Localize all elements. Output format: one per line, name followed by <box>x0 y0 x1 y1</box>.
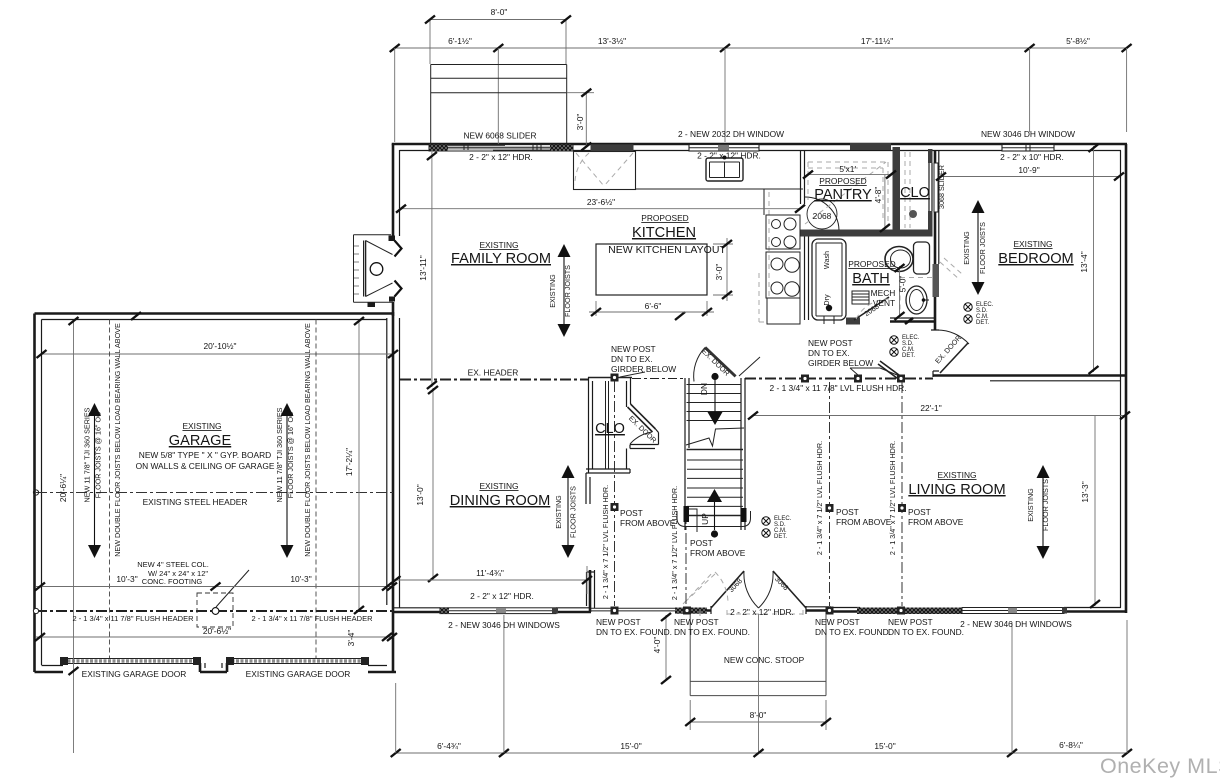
entry double doors 3068 <box>711 571 806 608</box>
upper flight treads <box>687 385 742 421</box>
svg-text:EXISTING: EXISTING <box>479 481 518 491</box>
CLO shelves dashed <box>905 152 910 228</box>
svg-text:Dry: Dry <box>822 294 831 306</box>
svg-text:4'-0": 4'-0" <box>652 637 662 654</box>
svg-text:2 - 1 3/4" x 7 1/2" LVL FLUSH: 2 - 1 3/4" x 7 1/2" LVL FLUSH HDR. <box>815 441 824 555</box>
kitchen island dims <box>589 301 714 316</box>
lower flight treads <box>687 460 743 506</box>
svg-text:DET.: DET. <box>902 353 915 359</box>
svg-text:MECH: MECH <box>871 288 896 298</box>
svg-text:13'-3": 13'-3" <box>1080 481 1090 502</box>
svg-text:8'-0": 8'-0" <box>491 7 508 17</box>
bedroom door jamb stub <box>931 330 939 377</box>
svg-text:NEW 3046 DH WINDOW: NEW 3046 DH WINDOW <box>981 129 1075 139</box>
bottom dim line <box>396 752 1127 754</box>
svg-text:6'-1½": 6'-1½" <box>448 36 472 46</box>
bath bottom hatched block <box>846 318 860 325</box>
svg-text:13'-11": 13'-11" <box>418 255 428 280</box>
right counter with range <box>763 189 765 215</box>
svg-text:20'-6¼": 20'-6¼" <box>58 474 68 502</box>
svg-text:DN TO EX.: DN TO EX. <box>611 354 653 364</box>
house right wall <box>1125 144 1128 613</box>
living room flush hdr verticals <box>830 382 903 606</box>
EX HEADER line <box>400 379 588 381</box>
svg-text:13'-0": 13'-0" <box>415 484 425 505</box>
stoop <box>690 614 826 696</box>
svg-text:NEW CONC. STOOP: NEW CONC. STOOP <box>724 655 805 665</box>
kitchen top counter edge <box>636 188 803 190</box>
ELEC symbols stairs <box>762 517 770 537</box>
living windows <box>962 608 1064 614</box>
fireplace firebox <box>365 241 367 297</box>
kitchen window <box>689 145 759 152</box>
svg-text:2 - NEW 3046 DH WINDOWS: 2 - NEW 3046 DH WINDOWS <box>960 619 1072 629</box>
svg-text:DN TO EX.: DN TO EX. <box>808 348 850 358</box>
svg-text:2 - 1 3/4" x 7 1/2" LVL FLUSH: 2 - 1 3/4" x 7 1/2" LVL FLUSH HDR. <box>888 441 897 555</box>
svg-text:FLOOR JOISTS: FLOOR JOISTS <box>563 265 572 317</box>
extension lines <box>395 48 1127 146</box>
svg-text:LIVING ROOM: LIVING ROOM <box>908 482 1005 498</box>
svg-text:UP: UP <box>700 513 710 525</box>
svg-text:FLOOR JOISTS: FLOOR JOISTS <box>1041 479 1050 531</box>
closet angled door wall <box>628 404 656 432</box>
pantry dims 5'-1 / 4'-8 <box>807 174 893 176</box>
pantry door arc 2068 <box>805 197 839 230</box>
toilet <box>914 242 930 274</box>
svg-text:2 - 1 3/4" x 7 1/2" LVL FLUSH: 2 - 1 3/4" x 7 1/2" LVL FLUSH HDR. <box>601 485 610 599</box>
existing steel header line <box>36 492 396 494</box>
pantry/CLO top hatched wall segment <box>850 143 891 150</box>
svg-text:NEW 11 7/8" TJI 360 SERIES: NEW 11 7/8" TJI 360 SERIES <box>275 407 284 502</box>
svg-text:20'-6½": 20'-6½" <box>203 626 231 636</box>
svg-text:NEW DOUBLE FLOOR JOISTS BELOW: NEW DOUBLE FLOOR JOISTS BELOW LOAD BEARI… <box>303 323 312 557</box>
pantry east hatched wall <box>893 147 901 231</box>
svg-text:11'-4¾": 11'-4¾" <box>476 568 504 578</box>
fireplace box <box>354 235 394 303</box>
dining windows <box>440 608 556 614</box>
svg-text:20'-10½": 20'-10½" <box>204 341 237 351</box>
svg-text:10'-9": 10'-9" <box>1018 165 1039 175</box>
island <box>596 244 707 295</box>
svg-text:2 - 1 3/4" x 11 7/8" FLUSH HEA: 2 - 1 3/4" x 11 7/8" FLUSH HEADER <box>72 614 194 623</box>
svg-text:6'-4¾": 6'-4¾" <box>437 741 461 751</box>
svg-text:CLO: CLO <box>900 185 930 201</box>
svg-text:EXISTING: EXISTING <box>1013 239 1052 249</box>
svg-text:DN TO EX. FOUND.: DN TO EX. FOUND. <box>596 627 672 637</box>
4'-0 entry dim <box>665 615 667 681</box>
flush header center line <box>36 610 394 612</box>
svg-text:2 - NEW 3046 DH WINDOWS: 2 - NEW 3046 DH WINDOWS <box>448 620 560 630</box>
living bottom new hatched wall <box>857 608 962 615</box>
svg-text:5'-8½": 5'-8½" <box>1066 36 1090 46</box>
svg-text:CONC. FOOTING: CONC. FOOTING <box>142 577 203 586</box>
svg-text:PROPOSED: PROPOSED <box>848 259 895 269</box>
bedroom window <box>1002 145 1054 152</box>
UP arrow <box>711 530 718 537</box>
bath 5'-0 dim <box>899 266 901 318</box>
fireplace black blocks <box>389 236 396 242</box>
break line <box>686 428 744 446</box>
svg-text:2 - 2" x 12" HDR.: 2 - 2" x 12" HDR. <box>697 151 761 161</box>
svg-text:PROPOSED: PROPOSED <box>819 176 866 186</box>
svg-text:NEW POST: NEW POST <box>596 617 641 627</box>
svg-text:NEW DOUBLE FLOOR JOISTS BELOW: NEW DOUBLE FLOOR JOISTS BELOW LOAD BEARI… <box>113 323 122 557</box>
garage door jamb blocks <box>60 657 68 665</box>
svg-text:EXISTING: EXISTING <box>548 274 557 308</box>
living room bottom wall <box>831 610 1126 613</box>
svg-text:EXISTING: EXISTING <box>937 470 976 480</box>
fireplace opening chevrons <box>395 241 402 297</box>
svg-text:BATH: BATH <box>852 271 890 287</box>
CLO east wall with slider opening <box>928 149 933 163</box>
svg-text:EXISTING: EXISTING <box>1026 488 1035 522</box>
garage vertical dim left <box>73 320 75 754</box>
newel black blocks <box>684 506 690 522</box>
dining east wall stub <box>589 570 592 612</box>
svg-text:5'x1': 5'x1' <box>839 164 856 174</box>
svg-text:PANTRY: PANTRY <box>814 187 872 203</box>
svg-text:13'-4": 13'-4" <box>1079 251 1089 272</box>
svg-text:2 - 1 3/4" x 11 7/8" LVL FLUSH: 2 - 1 3/4" x 11 7/8" LVL FLUSH HDR. <box>769 383 906 393</box>
svg-text:FROM ABOVE: FROM ABOVE <box>836 517 892 527</box>
svg-text:23'-6½": 23'-6½" <box>587 197 615 207</box>
family/dining joist arrow <box>563 257 565 324</box>
svg-text:DET.: DET. <box>976 320 989 326</box>
bedroom west wall <box>934 150 937 264</box>
stairs top EX DOOR <box>705 348 736 377</box>
svg-text:EXISTING: EXISTING <box>182 421 221 431</box>
3'-0 vert dim at deck <box>567 93 594 147</box>
svg-text:POST: POST <box>908 507 931 517</box>
svg-text:KITCHEN: KITCHEN <box>632 225 696 241</box>
svg-text:2 - 1 3/4" x 11 7/8" FLUSH HEA: 2 - 1 3/4" x 11 7/8" FLUSH HEADER <box>251 614 373 623</box>
svg-text:EX. HEADER: EX. HEADER <box>468 368 519 378</box>
girder leader trapezoid <box>850 368 897 375</box>
svg-text:3'-4": 3'-4" <box>346 630 356 647</box>
steel column dashed box <box>197 593 233 627</box>
svg-text:3068 SLIDER: 3068 SLIDER <box>937 165 946 209</box>
washer dryer unit <box>812 239 846 320</box>
svg-text:EXISTING: EXISTING <box>479 240 518 250</box>
garage dim line 10'-3 row <box>36 586 394 588</box>
svg-text:2 - NEW 2032 DH WINDOW: 2 - NEW 2032 DH WINDOW <box>678 129 784 139</box>
flush header line stairs to bedroom <box>745 378 933 380</box>
closet top wall <box>588 377 632 379</box>
svg-text:3'-0": 3'-0" <box>575 114 585 131</box>
house top wall outer <box>392 143 1127 146</box>
svg-text:EXISTING: EXISTING <box>554 495 563 529</box>
svg-text:POST: POST <box>620 508 643 518</box>
svg-text:FROM ABOVE: FROM ABOVE <box>620 518 676 528</box>
svg-text:4'-8": 4'-8" <box>873 187 883 204</box>
svg-text:17'-11½": 17'-11½" <box>861 36 893 46</box>
bath door leaf <box>854 297 889 320</box>
living joist arrow <box>1042 478 1044 546</box>
DN arrow <box>711 373 718 380</box>
house top wall inner segments <box>400 150 1122 152</box>
svg-text:15'-0": 15'-0" <box>620 741 641 751</box>
posts on girder <box>611 374 619 382</box>
svg-text:6'-8¼": 6'-8¼" <box>1059 740 1083 750</box>
8'-0 stoop dim <box>690 700 826 730</box>
garage top interior dim 20'-10.5 <box>41 353 394 355</box>
fireplace masonry ticks <box>354 246 359 294</box>
svg-text:ON WALLS & CEILING OF GARAGE: ON WALLS & CEILING OF GARAGE <box>136 461 275 471</box>
svg-text:NEW POST: NEW POST <box>611 344 656 354</box>
svg-text:FROM ABOVE: FROM ABOVE <box>690 548 746 558</box>
lower cabinet right <box>767 298 800 324</box>
slider window <box>429 145 573 152</box>
garage dim line 20'-6.5 row <box>36 636 394 638</box>
svg-text:Wash: Wash <box>822 251 831 269</box>
joist arrows garage <box>94 416 96 545</box>
22'-1 dim <box>752 415 1127 417</box>
bedroom west wall hatched new portion <box>933 264 940 297</box>
svg-text:EXISTING STEEL HEADER: EXISTING STEEL HEADER <box>143 497 248 507</box>
svg-text:2068: 2068 <box>813 211 832 221</box>
svg-text:NEW 4" STEEL COL.: NEW 4" STEEL COL. <box>137 560 209 569</box>
range boxes <box>766 215 800 249</box>
bedroom dims 10'-9 / 13'-4 <box>939 176 1121 178</box>
entry jambs and wall to stoop right <box>591 608 675 611</box>
13'-11 family dim <box>431 152 433 387</box>
bottom rounded rail <box>677 511 751 527</box>
svg-text:GARAGE: GARAGE <box>169 433 232 449</box>
svg-text:13'-3½": 13'-3½" <box>598 36 626 46</box>
bedroom door <box>940 343 968 373</box>
svg-text:EXISTING: EXISTING <box>962 231 971 265</box>
mech vent box <box>852 291 869 304</box>
entry bottom hatched wall <box>675 608 707 614</box>
svg-text:10'-3": 10'-3" <box>290 574 311 584</box>
landing line <box>687 449 744 451</box>
svg-text:EXISTING GARAGE DOOR: EXISTING GARAGE DOOR <box>82 669 187 679</box>
svg-text:DN TO EX. FOUND.: DN TO EX. FOUND. <box>888 627 964 637</box>
bedroom west wall lower <box>934 297 937 330</box>
top dim 8'-0 <box>430 20 566 65</box>
pantry west wall <box>801 150 805 204</box>
garage door band <box>63 659 368 664</box>
posts on bottom wall <box>611 607 619 615</box>
svg-text:NEW 5/8" TYPE " X " GYP. BOARD: NEW 5/8" TYPE " X " GYP. BOARD <box>139 450 271 460</box>
svg-text:NEW POST: NEW POST <box>888 617 933 627</box>
svg-text:DINING ROOM: DINING ROOM <box>450 493 551 509</box>
svg-text:15'-0": 15'-0" <box>874 741 895 751</box>
svg-text:6'-6": 6'-6" <box>645 301 662 311</box>
lav sink <box>906 286 927 314</box>
svg-text:DN TO EX. FOUND.: DN TO EX. FOUND. <box>815 627 891 637</box>
13'-3 living dim <box>1094 416 1096 607</box>
garage outer walls <box>35 314 397 673</box>
svg-text:2 - 2" x 12" HDR.: 2 - 2" x 12" HDR. <box>470 591 534 601</box>
svg-text:FLOOR JOISTS: FLOOR JOISTS <box>569 486 578 538</box>
svg-text:22'-1": 22'-1" <box>920 403 941 413</box>
fridge box with swing <box>574 152 636 190</box>
svg-text:EXISTING GARAGE DOOR: EXISTING GARAGE DOOR <box>246 669 351 679</box>
pantry shelves dashed <box>808 162 888 226</box>
11'-4.75 dim <box>394 566 587 594</box>
west wall family room <box>392 144 395 236</box>
svg-text:GIRDER BELOW: GIRDER BELOW <box>808 358 873 368</box>
svg-text:DN: DN <box>699 383 709 395</box>
svg-text:FAMILY ROOM: FAMILY ROOM <box>451 251 551 267</box>
hall angled wall to post <box>878 361 901 380</box>
hall closet <box>586 377 631 473</box>
13'-0 dining dim <box>432 388 434 580</box>
svg-text:NEW KITCHEN LAYOUT: NEW KITCHEN LAYOUT <box>608 244 726 256</box>
svg-text:DN TO EX. FOUND.: DN TO EX. FOUND. <box>674 627 750 637</box>
svg-text:8'-0": 8'-0" <box>750 710 767 720</box>
svg-text:17'-2¼": 17'-2¼" <box>344 448 354 476</box>
svg-text:BEDROOM: BEDROOM <box>998 251 1073 267</box>
stoop center line <box>758 614 760 753</box>
bedroom/living divider wall <box>933 374 1126 377</box>
svg-text:NEW POST: NEW POST <box>808 338 853 348</box>
garage vertical dim right <box>358 320 360 612</box>
dining side flush hdr verticals <box>615 381 687 606</box>
west wall below fireplace to garage top <box>392 302 395 316</box>
svg-text:FLOOR JOISTS: FLOOR JOISTS <box>978 222 987 274</box>
svg-text:2 - 2" x 12" HDR.: 2 - 2" x 12" HDR. <box>469 152 533 162</box>
elec labels <box>774 302 994 540</box>
dining bottom wall <box>392 611 591 614</box>
svg-text:GIRDER BELOW: GIRDER BELOW <box>611 364 676 374</box>
svg-text:POST: POST <box>836 507 859 517</box>
ticks on garage top wall <box>131 312 141 320</box>
svg-text:FLOOR JOISTS @ 16" OC: FLOOR JOISTS @ 16" OC <box>94 412 103 499</box>
dining west wall / garage east wall <box>392 312 395 672</box>
stair side walls <box>685 378 745 530</box>
leader to steel col <box>216 570 249 607</box>
bedroom joist arrow <box>977 213 979 282</box>
bedroom closet slider dashes <box>940 258 962 280</box>
deck above slider <box>431 65 567 147</box>
load bearing wall dashed lines <box>110 320 317 659</box>
post leader L <box>689 509 697 532</box>
svg-text:NEW POST: NEW POST <box>674 617 719 627</box>
pantry bottom hatched wall <box>800 230 933 237</box>
svg-text:NEW POST: NEW POST <box>815 617 860 627</box>
bath west wall <box>805 237 809 321</box>
bath bottom wall <box>890 320 935 323</box>
svg-text:2 - 2" x 12" HDR.: 2 - 2" x 12" HDR. <box>730 607 794 617</box>
svg-text:PROPOSED: PROPOSED <box>641 213 688 223</box>
garage inner wall lines <box>42 320 388 669</box>
svg-text:NEW 11 7/8" TJI 360 SERIES: NEW 11 7/8" TJI 360 SERIES <box>83 407 92 502</box>
svg-text:FLOOR JOISTS @ 16" OC: FLOOR JOISTS @ 16" OC <box>286 412 295 499</box>
bottom extensions <box>396 615 1127 753</box>
3'-4 garage right dim ticks <box>382 583 392 591</box>
fireplace circle <box>370 263 383 276</box>
svg-text:10'-3": 10'-3" <box>116 574 137 584</box>
23'-6.5 dim <box>399 208 801 210</box>
svg-text:CLO: CLO <box>595 421 625 437</box>
vanity dashed <box>900 278 932 319</box>
closet stub below <box>586 473 590 504</box>
top dim row2 <box>395 47 1127 49</box>
svg-text:2 - 2" x 10" HDR.: 2 - 2" x 10" HDR. <box>1000 152 1064 162</box>
svg-text:NEW 6068 SLIDER: NEW 6068 SLIDER <box>463 131 536 141</box>
svg-text:5'-0": 5'-0" <box>898 276 908 293</box>
svg-text:3'-0": 3'-0" <box>714 264 724 281</box>
svg-text:OneKey MLS: OneKey MLS <box>1100 754 1220 778</box>
svg-text:POST: POST <box>690 538 713 548</box>
svg-text:2 - 1 3/4" x 7 1/2" LVL FLUSH: 2 - 1 3/4" x 7 1/2" LVL FLUSH HDR. <box>670 486 679 600</box>
sink <box>706 158 743 181</box>
svg-text:DET.: DET. <box>774 534 787 540</box>
svg-text:FROM ABOVE: FROM ABOVE <box>908 517 964 527</box>
